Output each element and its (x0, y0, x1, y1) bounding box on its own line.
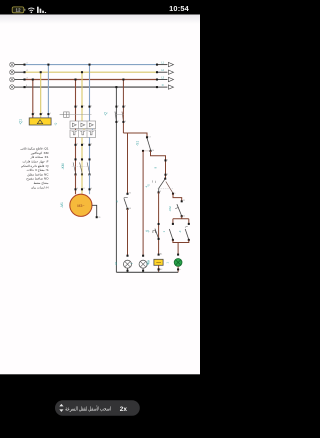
contact KM NC auxiliary (175, 200, 185, 217)
svg-text:-F: -F (178, 230, 182, 233)
node bus L2 left junction (23, 70, 27, 73)
svg-text:-Q1: -Q1 (18, 119, 22, 125)
node bus N left junction (23, 85, 27, 88)
contactor KM main contacts (72, 158, 91, 175)
contact parallel left NO (169, 223, 174, 241)
svg-text:5: 5 (174, 193, 175, 195)
svg-text:3: 3 (83, 105, 84, 107)
wire to lamp H1 (127, 209, 129, 256)
node selector common (164, 174, 167, 176)
wire branch to lamp H1 (127, 133, 129, 194)
node bus L1 right junction (156, 64, 158, 66)
breaker Q control circuit 2-pole (115, 105, 126, 123)
wire KM to motor x89.5 (89, 175, 91, 195)
contact parallel right NO (185, 223, 190, 241)
node motor terminal x75.5 (74, 188, 78, 190)
svg-text:4: 4 (83, 144, 84, 146)
svg-text:1: 1 (118, 105, 119, 107)
svg-text:21: 21 (183, 200, 185, 202)
node selector upper (164, 159, 167, 161)
node F1 input terminal 5 (88, 105, 91, 107)
node motor terminal x82.0 (81, 188, 85, 190)
switch Q1 (three-pole isolator, yellow box) (29, 118, 51, 125)
node bus L3 left junction (23, 77, 27, 80)
svg-text:-S1: -S1 (136, 141, 140, 146)
node tap L2 x40.7 (40, 71, 42, 73)
node F1 output terminal 6 (88, 144, 91, 146)
svg-text:2x: 2x (120, 406, 128, 413)
motor M1 (three phase) (70, 194, 92, 216)
node F1 output terminal 4 (81, 144, 84, 146)
svg-text:-Q: -Q (104, 112, 108, 116)
wire control horizontal to S1 (123, 133, 147, 137)
svg-text:-KM: -KM (168, 206, 172, 212)
svg-text:96: 96 (129, 208, 131, 210)
wire F1 output x82.0 (81, 137, 83, 159)
wire selector to pressure switch (158, 192, 160, 254)
bottom hint pill (55, 400, 140, 415)
wire control neutral drop N (115, 87, 117, 272)
svg-text:A1: A1 (160, 253, 162, 256)
node Q1 input terminal (40, 113, 43, 115)
wire bottom neutral bus (116, 271, 178, 273)
node bus L3 right junction (156, 78, 158, 80)
node F1 output terminal 2 (74, 144, 77, 146)
node bus N right junction (156, 86, 158, 88)
wire to selector (151, 151, 166, 179)
svg-text:A2: A2 (160, 268, 162, 271)
node bus L2 right junction (156, 71, 158, 73)
wire F1 drop x82.0 (81, 72, 83, 121)
node tap F1 x89.5 (88, 64, 90, 66)
node tap L1 x48.4 (47, 64, 49, 66)
arrow out L3 (168, 77, 173, 81)
svg-text:3: 3 (125, 105, 126, 107)
wire bus L1 (15, 64, 168, 66)
node F1 input terminal 1 (74, 105, 77, 107)
status bar battery badge 12 (12, 7, 25, 13)
source terminal G4 (10, 85, 15, 90)
svg-text:1: 1 (34, 113, 35, 115)
status bar wifi icon (28, 8, 34, 13)
node tap L3 x32.8 (32, 78, 34, 80)
svg-text:2: 2 (77, 144, 78, 146)
wire F1 output x75.5 (75, 137, 77, 159)
svg-text:95: 95 (129, 193, 131, 195)
node tap lamp H2 (142, 150, 151, 152)
wire motor earth stub (92, 205, 97, 216)
wire Q1 drop from L2 (40, 72, 42, 118)
wire control phase drop L3 (122, 80, 124, 134)
wire F1 drop x89.5 (89, 65, 91, 121)
node F1 input terminal 3 (81, 105, 84, 107)
wire KM to motor x75.5 (75, 175, 77, 195)
node motor earth terminal (96, 216, 102, 219)
svg-text:x: x (180, 269, 181, 271)
wire split node (173, 216, 189, 224)
svg-text:-Q: -Q (53, 123, 57, 126)
svg-text:-KM: -KM (61, 163, 65, 169)
wire F1 output x89.5 (89, 137, 91, 159)
svg-text:N: N (26, 85, 27, 87)
arrow out L1 (168, 62, 173, 66)
lamp H3 green (174, 254, 182, 273)
arrow out N (168, 85, 173, 89)
lamp H1 (124, 255, 132, 273)
node tap N control (115, 86, 117, 88)
svg-text:2: 2 (167, 174, 168, 176)
node motor terminal x89.5 (88, 188, 92, 190)
svg-text:2: 2 (118, 121, 119, 123)
wire bus L3 (15, 79, 168, 81)
wire to lamp H2 (142, 151, 144, 256)
wire selector right branch (173, 194, 182, 202)
legend text block (20, 147, 49, 190)
svg-text:1: 1 (167, 160, 168, 162)
svg-text:-F: -F (115, 200, 119, 203)
wire Q1 drop from L3 (32, 80, 34, 119)
svg-text:14: 14 (152, 150, 154, 152)
node tap F1 x75.5 (74, 78, 76, 80)
svg-text:1: 1 (50, 113, 51, 115)
svg-text:13: 13 (148, 136, 150, 138)
status bar clock (169, 4, 189, 13)
wire F1 drop x75.5 (75, 80, 77, 122)
arrow out L2 (168, 70, 173, 74)
node Q1 input terminal (32, 113, 35, 115)
svg-text:6: 6 (91, 144, 92, 146)
svg-text:4: 4 (125, 121, 126, 123)
svg-text:-M1: -M1 (60, 202, 64, 208)
pushbutton S1 start NO (146, 136, 154, 152)
wire bus N (15, 86, 168, 88)
svg-text:1: 1 (42, 113, 43, 115)
svg-text:1: 1 (77, 105, 78, 107)
coil KM (154, 253, 163, 273)
lamp H2 (139, 255, 147, 273)
node Q1 input terminal (47, 113, 50, 115)
wire bus L2 (15, 71, 168, 73)
svg-text:M3~: M3~ (77, 204, 84, 208)
node tap F1 x82.0 (81, 71, 83, 73)
source terminal G2 (10, 70, 15, 75)
svg-text:-H2: -H2 (145, 261, 149, 266)
svg-text:L2: L2 (26, 70, 28, 72)
node bus L1 left junction (23, 62, 27, 65)
selector switch S 3-position (153, 178, 176, 195)
status bar signal icon (37, 7, 46, 13)
manual actuator of F1 (60, 112, 92, 118)
svg-text:12: 12 (15, 8, 21, 13)
node coil on neutral (158, 268, 160, 270)
svg-text:5: 5 (91, 105, 92, 107)
svg-text:L3: L3 (26, 77, 28, 79)
source terminal G3 (10, 77, 15, 82)
node tap L3 control (122, 78, 124, 80)
svg-text:H: لمبات بيان: H: لمبات بيان (31, 185, 48, 189)
breaker F1 (motor protection circuit breaker) (70, 121, 96, 137)
wire Q1 drop from L1 (47, 65, 49, 118)
contact KM NC for H1 (124, 193, 131, 210)
svg-text:L1: L1 (26, 62, 28, 64)
source terminal G1 (10, 62, 15, 67)
wire KM to motor x82.0 (81, 175, 83, 195)
pressure switch contact (153, 223, 160, 240)
wire rejoin to lamp H3 (173, 240, 189, 255)
svg-text:3: 3 (160, 191, 161, 193)
svg-text:22: 22 (183, 215, 185, 217)
svg-text:-H1: -H1 (114, 261, 118, 266)
